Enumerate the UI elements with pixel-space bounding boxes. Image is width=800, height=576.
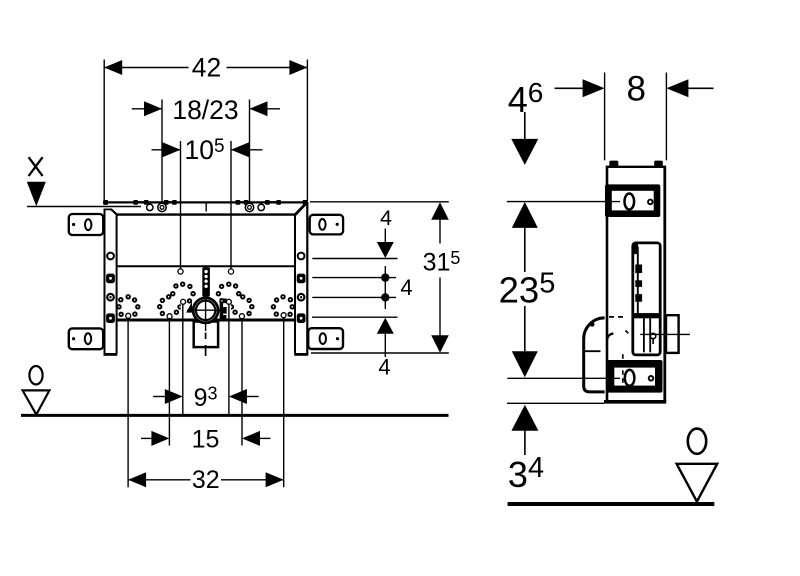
- channel hook: [650, 333, 655, 338]
- anchor bolt cluster C: [226, 282, 231, 287]
- X level line: [27, 206, 141, 208]
- X level marker: [29, 157, 43, 176]
- dimension 10_5: [152, 149, 181, 151]
- floor line left view: [21, 414, 449, 417]
- elbow nub: [590, 322, 595, 327]
- anchor bolt cluster D: [280, 294, 285, 299]
- profile top edge: [608, 166, 664, 168]
- dimension 42: [104, 67, 188, 69]
- ref line 31_5 bottom: [311, 352, 449, 354]
- leader hole 9_3 left: [181, 305, 185, 318]
- dimension 8 extension lines: [604, 73, 606, 161]
- svg-text:32: 32: [192, 466, 220, 494]
- leader hole 15 left: [167, 316, 171, 321]
- connection centerline: [640, 333, 690, 335]
- drain elbow inner arc: [607, 334, 613, 340]
- leader hole 15 right: [240, 316, 244, 321]
- side hole line 2: [312, 277, 396, 279]
- elbow hidden edge top: [609, 316, 626, 318]
- wall bracket top left: [69, 214, 103, 235]
- frame outer right edge: [306, 202, 308, 354]
- svg-text:15: 15: [192, 426, 220, 454]
- side hole line 3: [312, 296, 396, 298]
- dimension 23_5: [512, 202, 538, 228]
- dimension 4 bottom: [377, 318, 394, 334]
- frame top rail: [104, 201, 308, 203]
- channel inner wall: [637, 247, 639, 314]
- drain crosshair: [187, 309, 222, 311]
- drain pipe housing: [194, 322, 218, 348]
- zero level marker right: [688, 429, 706, 454]
- floor line right view: [508, 502, 715, 506]
- frame top rail center tick: [205, 203, 207, 211]
- left channel fasteners: [107, 253, 114, 260]
- left pipe clamp wedge: [186, 302, 192, 313]
- ref line 3_4: [507, 402, 604, 404]
- mounting channel side view: [633, 243, 660, 355]
- profile top clips: [609, 161, 618, 167]
- channel tabs: [635, 265, 642, 274]
- svg-text:4: 4: [378, 355, 390, 380]
- leader hole 9_3 right: [227, 305, 231, 318]
- dimension 18/23: [132, 108, 162, 110]
- right pipe clamp: [220, 298, 224, 320]
- profile right edge: [663, 166, 666, 402]
- ref line 31_5 top: [310, 201, 449, 203]
- top rail fixing holes right: [245, 203, 253, 211]
- right channel bottom edge: [294, 353, 308, 356]
- frame right corner chamfer: [295, 203, 307, 215]
- profile left edge: [606, 166, 609, 402]
- frame inner right channel edge: [294, 215, 296, 353]
- drain elbow outer: [584, 318, 605, 351]
- side hole line 4: [312, 316, 398, 318]
- channel divider: [632, 313, 660, 318]
- dimension 10_5 extension lines: [180, 141, 182, 269]
- anchor bolt cluster B: [180, 282, 185, 287]
- svg-text:8: 8: [626, 70, 645, 109]
- wall bracket top right: [310, 215, 343, 235]
- frame top edge: [117, 213, 295, 215]
- wall bracket bottom right: [308, 328, 343, 349]
- svg-text:4: 4: [380, 206, 392, 230]
- drain elbow socket: [584, 351, 605, 392]
- side bracket bottom: [607, 360, 662, 393]
- anchor bolt cluster A: [126, 294, 131, 299]
- adjustment strip: [202, 267, 210, 296]
- wall bracket bottom left: [69, 328, 103, 349]
- dimension 8: [555, 87, 587, 89]
- svg-text:18/23: 18/23: [172, 95, 238, 125]
- dimension 32: [128, 479, 190, 481]
- elbow joint line: [584, 350, 601, 352]
- svg-text:4: 4: [400, 275, 412, 300]
- side hole line 1: [312, 258, 397, 260]
- dimension 3_4: [511, 405, 538, 431]
- top rail clips: [103, 200, 108, 205]
- drain outlet circle: [193, 298, 218, 323]
- leader hole 32 right: [282, 317, 286, 318]
- dimension 42 extension lines: [103, 60, 105, 202]
- side bracket top: [605, 184, 660, 217]
- frame left corner: [104, 208, 111, 210]
- zero reference leader bottom: [507, 377, 620, 379]
- channel inner guides: [643, 318, 645, 352]
- dimension 9_3: [153, 396, 165, 398]
- frame inner left channel edge: [116, 215, 118, 353]
- frame outer left edge: [104, 209, 106, 355]
- dimension 4 middle: [384, 266, 386, 309]
- dimension 18/23 extension lines: [161, 100, 163, 203]
- zero level marker left: [29, 366, 42, 384]
- svg-text:42: 42: [192, 53, 221, 83]
- profile bottom edge: [604, 400, 666, 404]
- frame middle rail: [117, 265, 295, 267]
- zero reference leader top: [507, 201, 620, 203]
- water connection box: [666, 315, 679, 353]
- left channel bottom edge: [104, 353, 118, 356]
- top rail fixing holes left: [147, 204, 153, 210]
- dimension 31_5: [431, 202, 449, 220]
- dimension 15: [141, 437, 151, 439]
- elbow hidden edge vertical: [622, 354, 624, 389]
- frame bottom rail: [117, 319, 295, 322]
- leader hole 32 left: [126, 316, 130, 320]
